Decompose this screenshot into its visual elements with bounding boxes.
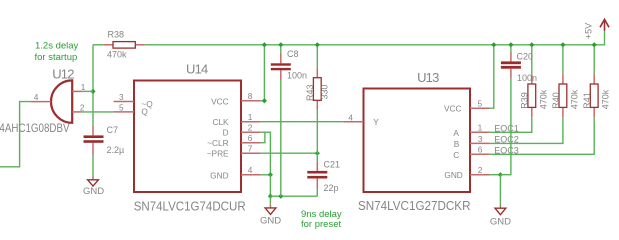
resistor R38 pins [104, 44, 113, 46]
U14 pin 5 Q [114, 111, 134, 113]
junction rail/R43 [315, 42, 320, 47]
svg-text:~PRE: ~PRE [207, 148, 229, 158]
svg-text:R40: R40 [551, 92, 561, 109]
resistor R41 pins [593, 107, 595, 117]
svg-text:1: 1 [81, 82, 86, 92]
svg-text:470k: 470k [601, 89, 611, 109]
junction C8/GND net [278, 194, 283, 199]
resistor R40 [559, 84, 567, 107]
junction rail/C8 [278, 42, 283, 47]
ground (U13) [499, 175, 501, 205]
wire C8 to GND net [280, 80, 282, 196]
wire ~PRE to R43/C21 [261, 152, 318, 154]
wire R40 to rail [562, 45, 564, 75]
wire EOC1 to R39 [490, 117, 532, 132]
svg-text:5: 5 [478, 99, 483, 109]
wire CLK to U13 Y [261, 121, 344, 123]
U14 pin 1 CLK [241, 121, 261, 123]
svg-text:22p: 22p [324, 183, 339, 193]
wire C7 to GND [92, 155, 94, 177]
ground (U14) [269, 196, 271, 205]
wire R43 to junction [316, 110, 318, 153]
svg-text:3: 3 [478, 134, 483, 144]
capacitor C21 pins [316, 162, 318, 171]
junction GND net corner [268, 194, 273, 199]
junction U13 GND [498, 172, 503, 177]
wire C20 to U13 GND junction [500, 79, 511, 175]
svg-text:GND: GND [490, 216, 511, 227]
junction rail/C20 [508, 42, 513, 47]
wire +5V rail left segment [93, 44, 104, 46]
svg-text:U13: U13 [417, 70, 439, 85]
svg-text:330: 330 [319, 84, 329, 99]
svg-text:2: 2 [478, 165, 483, 175]
wire U12 pin1 to node [82, 90, 93, 92]
annotation "9ns delay for preset" [301, 209, 342, 230]
capacitor C20 wire from rail [510, 45, 512, 52]
svg-text:1: 1 [248, 112, 253, 122]
wire U12 pin2 to U14 Q [82, 111, 114, 113]
U14 pin 8 VCC [241, 100, 261, 102]
svg-text:VCC: VCC [444, 103, 462, 113]
wire GND net horizontal [270, 195, 317, 197]
svg-text:6: 6 [248, 133, 253, 143]
svg-text:GND: GND [83, 186, 104, 197]
capacitor C8 pins [280, 54, 282, 64]
U13 pin 5 VCC [470, 107, 490, 109]
svg-text:2.2µ: 2.2µ [107, 145, 125, 155]
junction D/pin4 [268, 172, 273, 177]
junction rail/R39 [529, 42, 534, 47]
svg-text:C: C [453, 150, 459, 160]
svg-text:for preset: for preset [301, 219, 341, 230]
svg-text:CLK: CLK [212, 117, 229, 127]
svg-text:GND: GND [444, 170, 462, 180]
U13 pin 6 C / net EOC3 [470, 153, 490, 155]
capacitor C8 wire from rail [280, 45, 282, 54]
svg-text:D: D [223, 127, 229, 137]
svg-text:VCC: VCC [211, 97, 229, 107]
junction rail/R40 [560, 42, 565, 47]
svg-text:470k: 470k [107, 50, 127, 60]
resistor R43 [313, 78, 321, 101]
svg-text:R43: R43 [305, 84, 315, 101]
wire GND net vertical [269, 175, 271, 196]
svg-text:470k: 470k [569, 89, 579, 109]
wire D down to GND net [261, 132, 271, 175]
svg-text:C21: C21 [324, 159, 341, 169]
U14 pin 6 ~CLR [241, 142, 261, 144]
ground (C7) [92, 177, 94, 180]
U13 pin 3 B / net EOC2 [470, 142, 490, 144]
annotation "1.2s delay for startup" [35, 41, 79, 63]
capacitor C7 [84, 135, 104, 138]
svg-text:5: 5 [119, 102, 124, 112]
U13 pin 4 Y [343, 121, 363, 123]
U14 pin 2 D [241, 131, 261, 133]
svg-text:R38: R38 [108, 30, 125, 40]
resistor R40 pins [562, 107, 564, 117]
resistor R43 wire from rail [316, 45, 318, 68]
capacitor C21 [307, 171, 327, 174]
svg-text:Y: Y [373, 117, 379, 127]
svg-text:4: 4 [34, 92, 39, 102]
U14 pin 4 GND [241, 174, 261, 176]
capacitor C21 wire from junction [316, 153, 318, 161]
junction ~PRE/R43/C21 [315, 151, 320, 156]
junction rail/U13 VCC [491, 42, 496, 47]
svg-text:A: A [453, 128, 459, 138]
svg-text:GND: GND [260, 216, 281, 227]
wire ~CLR tie to D [261, 132, 265, 143]
U14 pin 7 ~PRE [241, 152, 261, 154]
junction rail/R41 [592, 42, 597, 47]
svg-text:1: 1 [478, 123, 483, 133]
svg-text:U12: U12 [52, 66, 74, 81]
U13 pin 1 A / net EOC1 [470, 131, 490, 133]
svg-text:3: 3 [119, 92, 124, 102]
op-amp U12 (AND gate, mirrored) [51, 80, 72, 122]
wire EOC2 to R40 [490, 117, 563, 143]
svg-text:2: 2 [248, 123, 253, 133]
svg-text:74AHC1G08DBV: 74AHC1G08DBV [0, 121, 70, 135]
capacitor C20 [501, 61, 521, 64]
svg-text:C7: C7 [107, 125, 119, 135]
flip-flop U14 [134, 81, 241, 193]
wire U14 VCC to rail [261, 45, 265, 101]
svg-text:100n: 100n [287, 70, 307, 80]
wire pin4 to GND net [261, 174, 271, 176]
svg-text:R39: R39 [520, 92, 530, 109]
svg-text:Q: Q [141, 107, 148, 117]
svg-text:470k: 470k [538, 89, 548, 109]
gate U13 [364, 89, 471, 193]
svg-text:B: B [454, 139, 460, 149]
resistor R43 pins [316, 68, 318, 78]
capacitor C20 pins [510, 52, 512, 62]
svg-text:2: 2 [80, 103, 85, 113]
U14 pin 3 ~Q [114, 101, 134, 103]
svg-text:~CLR: ~CLR [207, 138, 228, 148]
svg-text:8: 8 [248, 91, 253, 101]
U12 pin 1 [72, 90, 82, 92]
wire R39 to rail [531, 45, 533, 75]
svg-text:100n: 100n [517, 73, 537, 83]
svg-text:U14: U14 [186, 61, 208, 76]
resistor R38 [113, 42, 135, 49]
svg-text:SN74LVC1G27DCKR: SN74LVC1G27DCKR [358, 199, 471, 213]
svg-text:+5V: +5V [584, 23, 594, 39]
wire U13 GND [490, 174, 501, 176]
svg-text:GND: GND [210, 171, 228, 181]
capacitor C8 [271, 63, 291, 65]
wire +5V rail [145, 31, 605, 45]
wire RC node vertical (R38/C7/U12 pin1) [92, 45, 94, 126]
svg-text:R41: R41 [582, 92, 592, 109]
U13 pin 2 GND [470, 174, 490, 176]
svg-text:6: 6 [478, 145, 483, 155]
U12 pin 2 [72, 111, 82, 113]
wire U12 output to left edge [0, 102, 30, 167]
svg-text:for startup: for startup [35, 52, 78, 63]
svg-text:SN74LVC1G74DCUR: SN74LVC1G74DCUR [134, 200, 246, 214]
svg-text:7: 7 [248, 144, 253, 154]
junction node RC [90, 89, 95, 94]
resistor R39 [528, 84, 536, 107]
svg-text:C20: C20 [517, 51, 534, 61]
power +5V [604, 20, 606, 31]
wire U13 VCC to rail [490, 45, 494, 108]
svg-text:C8: C8 [287, 49, 299, 59]
resistor R39 pins [531, 107, 533, 117]
U12 output pin 4 [30, 101, 51, 103]
svg-text:1.2s delay: 1.2s delay [35, 41, 79, 52]
capacitor C7 pins [92, 126, 94, 135]
wire C21 to GND net [316, 189, 318, 197]
resistor R41 [590, 84, 598, 107]
svg-text:4: 4 [248, 165, 253, 175]
junction VCC pin8 [262, 98, 267, 103]
svg-text:4: 4 [348, 112, 353, 122]
wire EOC3 to R41 [490, 117, 595, 154]
wire R41 to rail [593, 45, 595, 75]
junction rail/VCC riser [262, 42, 267, 47]
